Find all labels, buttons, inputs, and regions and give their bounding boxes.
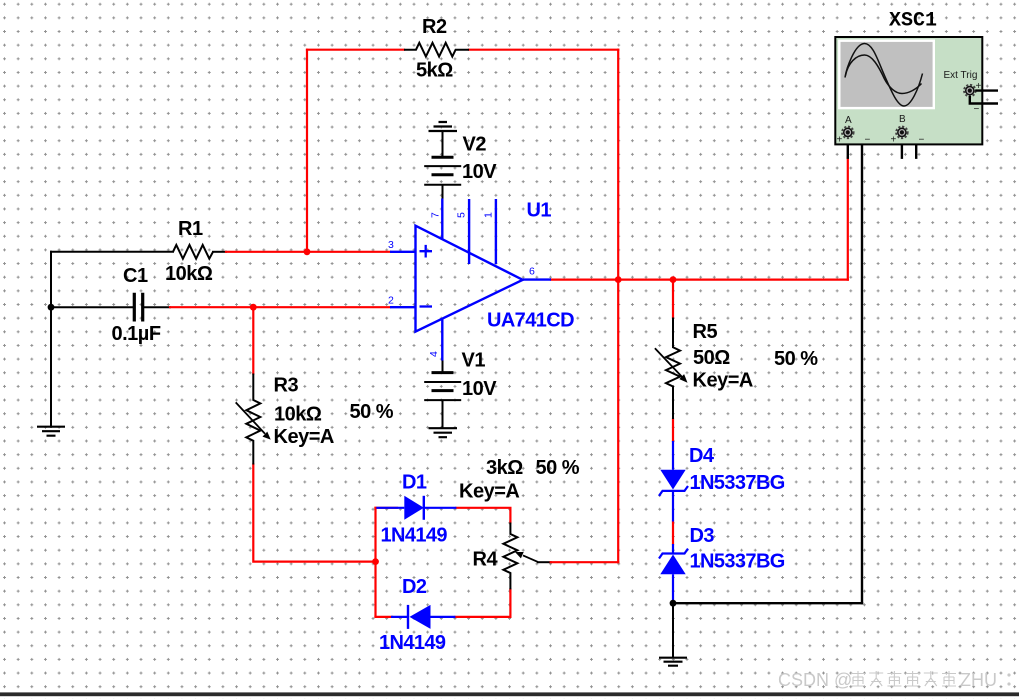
wire: black zener bottom node to ground (672, 603, 674, 657)
wire: red R3 bottom to junction (253, 465, 375, 562)
svg-text:Key=A: Key=A (693, 370, 753, 392)
node R1/R2 junction (304, 248, 311, 255)
svg-text:10kΩ: 10kΩ (165, 263, 213, 285)
node zener/ground junction (670, 600, 677, 607)
wire: black scope A minus vertical (852, 132, 862, 603)
svg-text:D3: D3 (690, 525, 715, 547)
ext trig terminal (964, 85, 976, 97)
svg-text:Ext Trig: Ext Trig (944, 70, 978, 81)
potentiometer R3 (246, 374, 260, 465)
svg-text:U1: U1 (527, 200, 552, 222)
node C1/R3 junction (250, 304, 257, 311)
svg-text:−: − (919, 135, 925, 146)
svg-text:C1: C1 (123, 265, 148, 287)
wire: red output row from pin6 to scope column (551, 279, 848, 281)
svg-text:R5: R5 (693, 321, 718, 343)
svg-text:10kΩ: 10kΩ (274, 404, 322, 426)
oscilloscope screen (839, 41, 934, 108)
wire: red feedback top from R2 left corner down to + input row (306, 50, 308, 252)
svg-text:3: 3 (388, 239, 394, 251)
wire: red feedback column x=618 from R2 down through output node to R4 wiper (617, 50, 619, 563)
resistor R2 (404, 43, 469, 57)
svg-text:R4: R4 (473, 549, 499, 571)
svg-text:10V: 10V (462, 378, 497, 400)
scope waveform trace B (846, 55, 922, 94)
svg-text:CSDN @: CSDN @ (778, 670, 852, 690)
wire: red between D4 and D3 (672, 522, 674, 545)
diode D1 (376, 496, 456, 520)
node R3/diode loop junction (372, 558, 379, 565)
wire: red D2 row left stub (376, 616, 393, 618)
svg-text:5: 5 (456, 212, 468, 218)
svg-text:1: 1 (483, 212, 495, 218)
battery V1 (424, 361, 461, 428)
svg-text:3kΩ: 3kΩ (486, 457, 523, 479)
wire: black left column from R1 row to ground (50, 252, 52, 427)
svg-text:4: 4 (428, 351, 440, 357)
wire: red C1 row to pin2 (170, 306, 390, 308)
svg-text:UA741CD: UA741CD (487, 310, 574, 332)
svg-text:50Ω: 50Ω (693, 347, 730, 369)
svg-text:−: − (974, 104, 980, 115)
wire: black R1 row left (51, 251, 173, 253)
wire: black C1 row left (51, 306, 133, 308)
R3 wiper arrow (236, 402, 271, 439)
wire: red D1 row right to R4 top (456, 508, 510, 523)
channel B terminal (896, 127, 908, 139)
capacitor C1 (134, 293, 142, 322)
svg-text:ZHU: ZHU (960, 670, 997, 690)
svg-text:7: 7 (430, 212, 442, 218)
wire: ext trig minus stub (970, 96, 998, 104)
resistor R1 (173, 245, 213, 259)
svg-text:V1: V1 (462, 350, 486, 372)
svg-text:Key=A: Key=A (459, 481, 519, 503)
wire: black node to scope A minus column (673, 602, 862, 604)
svg-text:2: 2 (388, 295, 394, 307)
svg-text:+: + (837, 135, 843, 146)
svg-text:D2: D2 (402, 576, 427, 598)
svg-text:1N5337BG: 1N5337BG (690, 472, 785, 494)
watermark (778, 670, 1011, 690)
scope waveform trace A (845, 44, 923, 107)
svg-text:1N4149: 1N4149 (379, 632, 446, 654)
wire: red diode loop vertical (374, 508, 376, 617)
wire: red R4 wiper to feedback column (551, 561, 619, 563)
svg-text:50 %: 50 % (536, 457, 580, 479)
oscilloscope XSC1 body (835, 37, 982, 144)
wire: black scope B minus stub (907, 132, 917, 157)
node output/R5 junction (670, 276, 677, 283)
potentiometer R5 (666, 318, 680, 420)
svg-text:+: + (891, 135, 897, 146)
potentiometer R4 (503, 523, 517, 590)
svg-text:50 %: 50 % (774, 348, 818, 370)
wire: black C1 right lead (145, 306, 171, 308)
svg-text:10V: 10V (462, 161, 497, 183)
zener diode D3 (659, 544, 688, 603)
svg-text:V2: V2 (463, 134, 487, 156)
wire: black R4 wiper horizontal stub (538, 561, 551, 563)
channel A terminal (842, 127, 854, 139)
svg-text:A: A (845, 115, 852, 126)
svg-text:R3: R3 (274, 375, 299, 397)
battery V2 (424, 131, 461, 199)
zener diode D4 (659, 441, 688, 522)
svg-text:R1: R1 (178, 218, 203, 240)
wire: red R2 row left segment (307, 49, 404, 51)
ground below V1 (429, 428, 458, 437)
ground left (37, 427, 65, 436)
node left input junction (48, 304, 55, 311)
node output/feedback junction (615, 276, 622, 283)
ground right (659, 658, 687, 666)
wire: black scope channel A plus stub (847, 138, 849, 158)
op-amp U1 (390, 199, 551, 361)
svg-text:0.1µF: 0.1µF (112, 323, 161, 345)
svg-text:1N5337BG: 1N5337BG (690, 551, 785, 573)
svg-text:5kΩ: 5kΩ (416, 60, 453, 82)
wire: red scope channel A riser (847, 158, 849, 280)
wire: red R5 drop from output row (672, 280, 674, 318)
svg-text:D1: D1 (402, 472, 427, 494)
svg-text:D4: D4 (689, 445, 715, 467)
svg-text:6: 6 (529, 266, 535, 278)
R4 wiper arrow (515, 552, 538, 562)
svg-text:50 %: 50 % (350, 401, 394, 423)
svg-text:R2: R2 (422, 16, 447, 38)
diode D2 (391, 605, 455, 629)
svg-text:XSC1: XSC1 (889, 10, 937, 33)
wire: black R1 right lead continuation (213, 251, 226, 253)
wire: red R3 drop from C1 row (252, 307, 254, 373)
ground flipped above V2 (429, 122, 458, 131)
svg-text:B: B (899, 114, 906, 125)
wire: red R5 bottom to D4 (672, 419, 674, 441)
wire: red R2 row right segment to feedback column (469, 49, 618, 51)
svg-text:−: − (865, 135, 871, 146)
R5 wiper arrow (655, 348, 688, 383)
svg-text:1N4149: 1N4149 (381, 525, 448, 547)
svg-text:Key=A: Key=A (274, 426, 334, 448)
wire: red D1 row left stub (376, 507, 398, 509)
wire: red R1 row to pin3 (226, 251, 390, 253)
wire: black scope B plus stub (901, 138, 903, 158)
wire: red R4 bottom to D2 row (455, 589, 510, 617)
wire: ext trig plus stub (975, 89, 998, 91)
